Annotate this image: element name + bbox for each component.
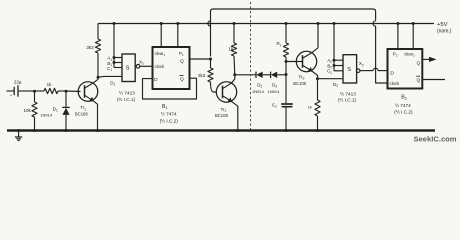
svg-text:D: D [154, 77, 158, 83]
svg-text:½ 7474: ½ 7474 [395, 102, 411, 108]
wire Qbar1 feedback to D input [143, 78, 197, 99]
wire clock feed top rail from B1 Q to B2 clock [211, 9, 376, 56]
node P2 rail junction [396, 22, 399, 25]
resistor 3k3 Tr1 collector load [97, 24, 99, 40]
wire A1 B1 C1 tie to +5V rail [113, 24, 115, 68]
diode D3 1N914 [269, 72, 272, 78]
svg-text:BC108: BC108 [293, 81, 306, 86]
resistor 1k Tr3 emitter [316, 79, 318, 100]
svg-text:Q: Q [416, 77, 420, 83]
input terminal wire [7, 90, 15, 92]
wire hop of clock riser over +5V rail at x=375.6 [373, 21, 376, 26]
wire clear2 riser [412, 24, 414, 50]
svg-text:Q: Q [416, 61, 420, 67]
svg-text:Q: Q [180, 76, 184, 82]
node clear1 rail junction [160, 22, 163, 25]
wire C1 stub [114, 66, 122, 68]
wire A2 stub [334, 59, 343, 61]
svg-text:Q: Q [180, 58, 184, 64]
wire hop of clock riser over +5V rail at x=210 [208, 21, 211, 26]
svg-text:S: S [126, 65, 130, 71]
wire Q2 output with arrow [422, 58, 429, 60]
node tie2 A2 junction [333, 59, 336, 62]
node Tr2 collector junction [233, 73, 236, 76]
node D1 junction [65, 90, 68, 93]
node clear2 rail junction [412, 22, 415, 25]
resistor Rx timing [285, 24, 287, 44]
svg-text:BC108: BC108 [75, 112, 88, 117]
wire Tr3 base [286, 60, 303, 62]
resistor 1k Tr2 collector load [233, 24, 235, 44]
svg-text:clock: clock [390, 81, 400, 86]
wire D2 to D3 [263, 74, 271, 76]
op-amp U3 Schmitt NAND gate S2 half 7413 [343, 55, 357, 83]
svg-text:½ 7413: ½ 7413 [119, 90, 135, 96]
node Tr1 emitter ground junction [96, 129, 99, 132]
node input junction [33, 90, 36, 93]
svg-text:1N914: 1N914 [40, 113, 53, 118]
wire clock riser lower part into B2 clock [376, 26, 388, 83]
svg-text:1k: 1k [308, 105, 312, 110]
op-amp U2 flip-flop B1 half 7474 box [153, 47, 190, 89]
node Tr2 emitter ground junction [236, 129, 239, 132]
node diode Cx junction [285, 73, 288, 76]
svg-text:S: S [347, 67, 351, 73]
op-amp U1 Schmitt NAND gate S half 7413 [122, 54, 135, 82]
svg-text:½ 7474: ½ 7474 [161, 110, 177, 116]
wire cap to input node [19, 90, 35, 92]
node Rx rail junction [285, 22, 288, 25]
svg-text:clock: clock [155, 64, 165, 69]
svg-text:(½ I.C.1): (½ I.C.1) [338, 96, 357, 102]
node 1k emitter ground junction [316, 129, 319, 132]
wire B1 stub [114, 61, 122, 63]
node Cx ground junction [285, 129, 288, 132]
svg-text:(½ I.C.2): (½ I.C.2) [160, 117, 179, 123]
wire +5V supply rail [98, 22, 434, 24]
wire D3 to base node [277, 74, 286, 76]
svg-text:(½ I.C.2): (½ I.C.2) [394, 108, 413, 114]
node 10k ground junction [33, 129, 36, 132]
node P1 rail junction [176, 22, 179, 25]
ground [17, 129, 20, 132]
wire emitter to gate D2 input [318, 78, 344, 80]
svg-text:+5V: +5V [437, 22, 448, 28]
wire 1k to Tr1 base [66, 90, 81, 93]
transistor Tr1 BC108 [78, 82, 98, 102]
svg-text:(½ I.C.1): (½ I.C.1) [117, 96, 136, 102]
node tie2 rail junction [333, 22, 336, 25]
transistor Tr2 BC108 [216, 82, 236, 102]
node tie A1 junction [113, 56, 116, 59]
svg-text:1N914: 1N914 [268, 89, 281, 94]
node tie2 B2 junction [333, 64, 336, 67]
svg-text:D: D [390, 71, 394, 77]
wire B2 stub [334, 64, 343, 66]
wire A2 B2 C2 tie to +5V rail [333, 24, 335, 71]
node 1k rail junction [233, 22, 236, 25]
wire dashed option line [250, 2, 252, 130]
wire P2 riser [397, 24, 399, 50]
node tie B1 junction [113, 61, 116, 64]
capacitor C 22u plate left [13, 87, 16, 95]
ground bus bottom rail [7, 128, 435, 133]
wire A1 stub [114, 56, 122, 58]
wire Tr2 collector to D2 [235, 74, 256, 76]
svg-text:22µ: 22µ [14, 79, 22, 84]
svg-text:10k: 10k [24, 108, 32, 113]
svg-text:3k3: 3k3 [86, 45, 94, 50]
diode D2 1N914 [255, 72, 258, 78]
resistor 10k to ground [33, 91, 35, 102]
svg-text:BC108: BC108 [215, 113, 228, 118]
gate 2 output bubble [356, 69, 360, 73]
svg-text:1k: 1k [47, 82, 53, 87]
svg-text:SeekIC.com: SeekIC.com [414, 135, 457, 144]
wire X2 to B2 D input [360, 69, 373, 71]
node Tr1 collector junction [97, 76, 100, 79]
wire collector node to gate D1 input [98, 75, 122, 78]
capacitor C 22u plate right [17, 85, 20, 96]
svg-text:(nom.): (nom.) [437, 29, 452, 35]
resistor 1k series [35, 90, 45, 92]
capacitor Cx timing [285, 75, 287, 104]
wire P1 riser [177, 24, 179, 48]
node Tr3 collector rail junction [317, 22, 320, 25]
wire Q1 output [190, 58, 211, 60]
wire Qbar2 output [422, 78, 445, 80]
node D1 ground junction [65, 129, 68, 132]
node Tr3 emitter junction [316, 77, 319, 80]
svg-text:½ 7413: ½ 7413 [340, 91, 356, 97]
op-amp U4 flip-flop B2 half 7474 box [388, 49, 423, 89]
transistor Tr3 BC108 [296, 51, 316, 71]
node Tr3 base junction upper [285, 60, 288, 63]
wire base node vertical [285, 62, 287, 75]
gate 1 output bubble [136, 65, 140, 69]
node Q1 junction [209, 58, 212, 61]
wire C2 stub [334, 70, 343, 72]
svg-text:1k: 1k [228, 46, 234, 51]
wire clear1 riser [160, 24, 162, 48]
node tie rail junction [113, 22, 116, 25]
wire X1 to B1 clock [140, 65, 153, 67]
svg-text:3k3: 3k3 [198, 73, 206, 78]
svg-text:1N914: 1N914 [252, 89, 265, 94]
diode D1 1N914 clamp [65, 91, 67, 107]
resistor 3k3 to Tr2 base [209, 59, 211, 68]
